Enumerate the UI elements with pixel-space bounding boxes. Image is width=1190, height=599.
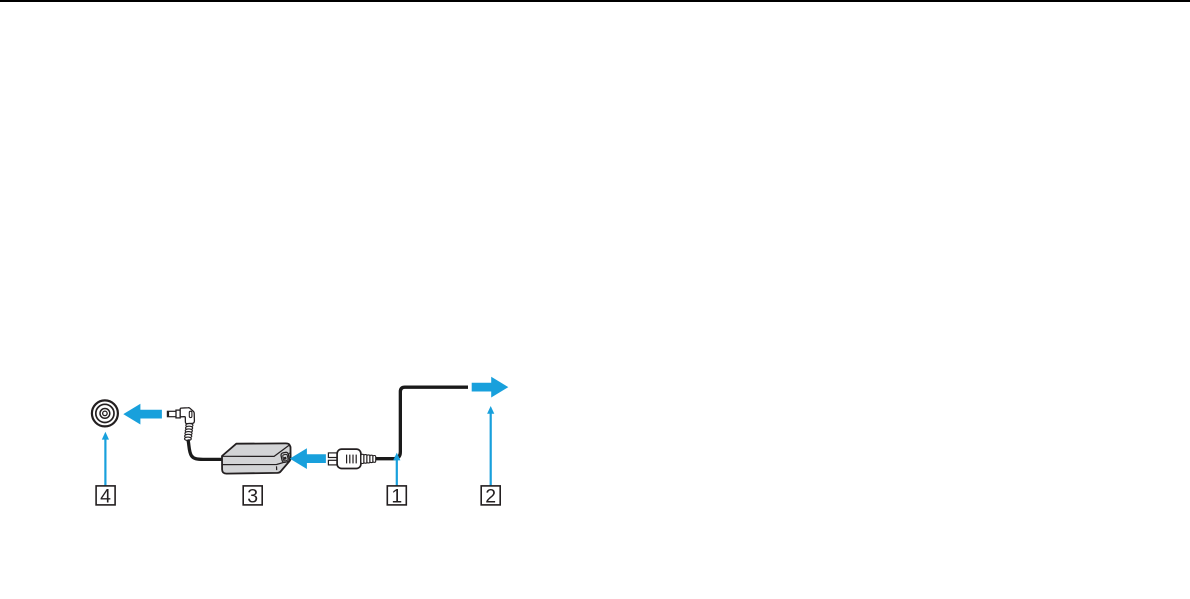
leader line to label 1 (393, 453, 400, 486)
power cord cable (lower run, riser, upper run) (376, 387, 468, 459)
cable from dc plug to ac adapter (188, 440, 223, 460)
power cord strain relief ribs (361, 454, 376, 463)
svg-text:3: 3 (247, 485, 258, 507)
adapter socket outline (281, 452, 290, 463)
leader line to label 4 (102, 432, 109, 486)
adapter socket inner (283, 454, 289, 461)
blue arrow pointing right to ac outlet (472, 377, 509, 398)
label box 4 (96, 485, 115, 507)
blue arrow pointing left at dc in port (123, 404, 162, 425)
svg-text:4: 4 (100, 485, 111, 507)
label box 2 (481, 485, 500, 507)
adapter end-cap corner line (276, 466, 278, 470)
svg-text:1: 1 (391, 485, 402, 507)
label box 3 (243, 485, 262, 507)
adapter socket pin (284, 457, 287, 460)
adapter socket-to-edge line (289, 452, 291, 454)
adapter seam line (222, 460, 290, 464)
dc plug barrel (167, 411, 176, 417)
dc plug spring strain relief (185, 424, 193, 441)
dc plug body oval detail (189, 411, 192, 417)
dc in port symbol (concentric circles) (92, 400, 118, 426)
power cord connector ridges (347, 455, 357, 464)
power cord connector body (337, 449, 361, 468)
ac adapter body (222, 443, 291, 473)
svg-text:2: 2 (485, 485, 496, 507)
label box 1 (387, 485, 406, 507)
top rule (0, 0, 1190, 2)
power cord connector prongs (328, 453, 337, 465)
leader line to label 2 (487, 406, 494, 486)
adapter top-front edge (222, 445, 289, 456)
dc plug collar (176, 410, 180, 418)
blue arrow pointing left into adapter socket (290, 448, 326, 469)
dc plug body (L-shaped) (180, 408, 194, 424)
